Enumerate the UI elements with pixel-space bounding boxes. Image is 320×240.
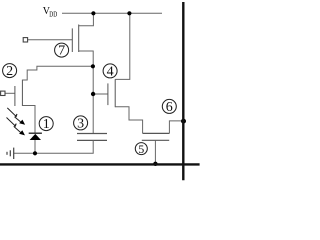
wire: Q2 drain staircase to node FD: [22, 66, 93, 80]
thick row line (bottom bus): [0, 163, 200, 165]
callout circle 3: [74, 116, 88, 130]
wire: ground rail to C3 bottom: [14, 140, 94, 153]
capacitor C3 top plate: [77, 133, 107, 135]
label VDD: [43, 6, 58, 19]
photodiode D1 triangle: [30, 134, 41, 140]
svg-text:7: 7: [58, 44, 65, 59]
junction dot C5 tap on row line: [153, 162, 157, 166]
svg-text:3: 3: [77, 117, 84, 132]
ground symbol: [7, 148, 14, 159]
transistor Q2 channel bar: [21, 80, 23, 106]
wire: Q2 gate lead from port: [5, 92, 15, 94]
callout circle 2: [3, 64, 17, 78]
transistor Q7 channel bar: [78, 25, 80, 53]
wire: photodiode to ground rail: [34, 140, 36, 154]
callout circle 4: [103, 64, 117, 78]
transistor Q4 gate bar: [107, 83, 109, 105]
wire: C5 bottom tap to row line: [154, 140, 156, 164]
wire: Q4 drain riser to VDD: [115, 13, 130, 79]
junction dot photodiode anode on ground rail: [33, 151, 37, 155]
callout circle 1: [3, 43, 177, 156]
wire: Q7 source down to node FD: [79, 51, 94, 66]
svg-text:1: 1: [43, 117, 50, 132]
port square P2: [1, 91, 5, 95]
transistor Q4 channel bar: [114, 79, 116, 107]
junction dot node FD at Q4 gate: [91, 92, 95, 96]
svg-text:DD: DD: [49, 11, 57, 19]
wire: Q7 drain riser to VDD: [79, 13, 94, 25]
svg-text:6: 6: [166, 100, 173, 115]
photodiode D1 cathode bar: [29, 132, 42, 134]
capacitor C5 bottom plate: [142, 139, 169, 141]
transistor Q7 gate bar: [71, 28, 73, 52]
wire: Q4 source staircase to capacitor C5: [115, 107, 142, 134]
wire: Q7 gate lead from port: [28, 39, 73, 41]
wire: Q2 source down to photodiode: [22, 106, 35, 133]
thick column line (right bus): [182, 2, 184, 180]
wire: node FD vertical to capacitor C3: [92, 66, 94, 133]
svg-text:2: 2: [6, 64, 13, 79]
callout circle 6: [162, 99, 176, 113]
svg-text:5: 5: [138, 142, 144, 156]
callout circle 7: [55, 43, 69, 57]
wire: C5 to output column line: [169, 121, 183, 133]
junction dot on VDD at Q7 drain: [91, 11, 95, 15]
svg-text:4: 4: [107, 65, 114, 80]
junction dot on VDD at Q4 drain: [127, 11, 131, 15]
light arrow 2: [7, 118, 21, 133]
callout circle 5: [135, 143, 147, 155]
net VDD supply wire: [62, 12, 162, 14]
capacitor C5 top plate: [143, 132, 170, 134]
junction dot node FD top: [91, 64, 95, 68]
light arrow 1: [7, 108, 20, 122]
junction dot output on column line: [181, 119, 186, 124]
transistor Q2 gate bar: [14, 86, 16, 106]
wire: Q4 gate lead: [93, 93, 108, 95]
port square P7: [23, 38, 27, 42]
capacitor C3 bottom plate: [77, 139, 107, 141]
